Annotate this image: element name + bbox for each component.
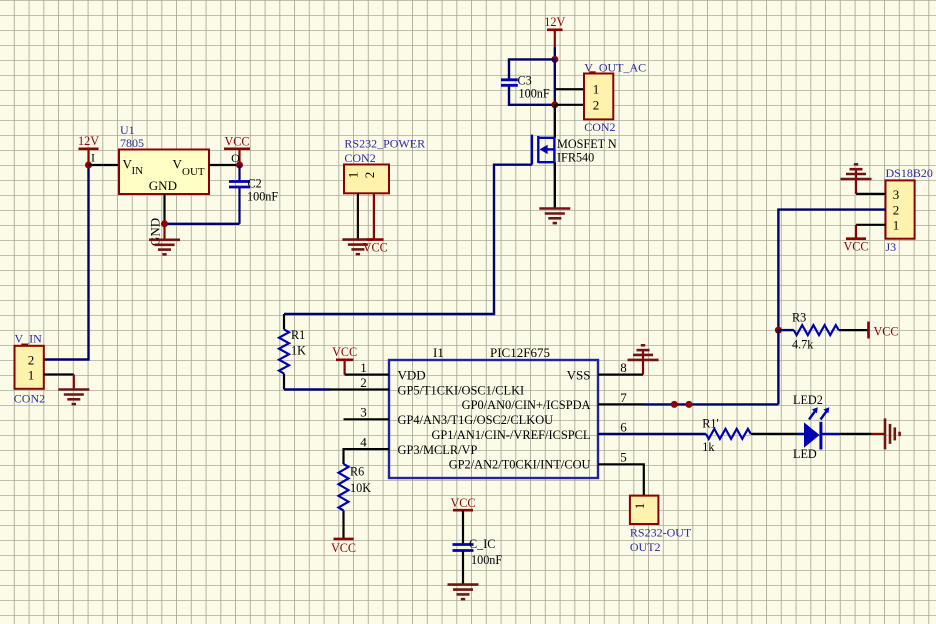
svg-text:CON2: CON2	[584, 120, 615, 134]
ground below MOSFET	[539, 209, 570, 224]
ground below RS232_POWER	[342, 240, 373, 255]
wire pin5	[598, 464, 644, 495]
wire U1 pin3 out	[209, 164, 240, 166]
svg-text:1k: 1k	[702, 440, 715, 454]
wire pin8	[598, 374, 643, 376]
svg-text:12V: 12V	[544, 15, 565, 29]
power port VCC right (rotated)	[869, 322, 899, 339]
svg-text:LED2: LED2	[793, 393, 823, 407]
svg-text:OUT2: OUT2	[630, 540, 661, 554]
svg-text:CON2: CON2	[344, 151, 375, 165]
svg-text:C_IC: C_IC	[469, 537, 495, 551]
svg-text:R6: R6	[350, 465, 364, 479]
svg-text:2: 2	[28, 353, 35, 368]
svg-text:5: 5	[620, 450, 627, 465]
svg-text:3: 3	[893, 187, 900, 202]
svg-text:4: 4	[360, 435, 367, 450]
svg-text:1: 1	[346, 172, 361, 179]
svg-text:1: 1	[893, 218, 900, 233]
svg-text:V_IN: V_IN	[15, 332, 43, 346]
wire U1 pin1	[89, 164, 120, 166]
svg-text:MOSFET N: MOSFET N	[557, 137, 617, 151]
svg-text:GP2/AN2/T0CKI/INT/COU: GP2/AN2/T0CKI/INT/COU	[449, 458, 591, 472]
svg-text:GP5/T1CKI/OSC1/CLKI: GP5/T1CKI/OSC1/CLKI	[398, 383, 525, 397]
svg-text:7: 7	[620, 390, 627, 405]
svg-text:2: 2	[593, 97, 600, 112]
wire pin3 stub	[344, 418, 390, 420]
transistor MOSFET N IFR540	[532, 135, 555, 165]
svg-text:J3: J3	[886, 240, 897, 254]
svg-text:VCC: VCC	[331, 541, 356, 555]
svg-text:2: 2	[893, 203, 900, 218]
ground right of LED (rotated)	[885, 418, 900, 449]
wire RS232_POWER pin1 down	[357, 193, 359, 239]
connector RS232-OUT	[630, 496, 659, 524]
svg-text:C2: C2	[248, 177, 262, 191]
connector V_IN CON2	[15, 345, 44, 389]
power port VCC below R6	[331, 539, 356, 555]
connector V_OUT_AC CON2	[584, 72, 613, 119]
svg-text:1K: 1K	[291, 344, 306, 358]
wire R3 to VCC	[839, 329, 869, 331]
wire V_IN pin1 to ground	[44, 373, 74, 375]
svg-text:VCC: VCC	[843, 240, 868, 254]
wire gate	[284, 165, 532, 314]
svg-text:100nF: 100nF	[519, 87, 550, 101]
svg-text:OUT: OUT	[182, 166, 205, 178]
wire 12V node vertical to V_IN pin2	[44, 165, 89, 360]
wire RS232_POWER pin2 down	[373, 193, 375, 239]
svg-text:2: 2	[362, 172, 377, 179]
svg-text:100nF: 100nF	[247, 190, 278, 204]
svg-text:1: 1	[28, 368, 35, 383]
svg-text:1: 1	[360, 360, 367, 375]
node junction R3	[775, 327, 782, 334]
svg-text:VCC: VCC	[332, 345, 357, 359]
node dot A on pin7 wire	[671, 401, 678, 408]
power port VCC at pin1	[332, 345, 357, 375]
ground GND below U1	[149, 224, 180, 255]
wire source down	[554, 162, 556, 208]
wire junction to R3	[778, 329, 793, 331]
svg-text:CON2: CON2	[14, 392, 45, 406]
svg-text:GP1/AN1/CIN-/VREF/ICSPCL: GP1/AN1/CIN-/VREF/ICSPCL	[431, 428, 590, 442]
svg-text:2: 2	[360, 375, 367, 390]
power port VCC bar at RS232_POWER	[367, 238, 384, 241]
svg-text:RS232_POWER: RS232_POWER	[344, 137, 425, 151]
wire J3 pin1 to VCC	[856, 224, 886, 226]
power port 12V (left)	[78, 134, 99, 165]
node junction at pin2	[551, 101, 558, 108]
node 12V junction	[85, 162, 92, 169]
svg-text:VDD: VDD	[398, 368, 426, 383]
capacitor C3 branch	[501, 59, 555, 104]
node VCC junction	[236, 162, 243, 169]
svg-text:U1: U1	[120, 123, 135, 137]
svg-text:GND: GND	[149, 178, 177, 193]
wire main vertical 12V net	[554, 59, 556, 104]
connector J3	[886, 180, 915, 238]
svg-text:V: V	[173, 157, 183, 172]
wire R1' to LED	[751, 433, 797, 435]
connector RS232_POWER CON2	[344, 165, 389, 194]
svg-text:1: 1	[593, 82, 600, 97]
wire C2 bottom to GND node	[165, 223, 240, 225]
resistor R6	[339, 464, 349, 538]
wire LED to ground	[840, 433, 871, 435]
wire pin4	[344, 449, 390, 464]
svg-text:GP0/AN0/CIN+/ICSPDA: GP0/AN0/CIN+/ICSPDA	[462, 398, 591, 412]
svg-text:LED: LED	[793, 447, 817, 461]
op-amp I1 box PIC12F675	[389, 360, 598, 478]
node dot B on pin7 wire	[686, 401, 693, 408]
wire pin2	[284, 388, 330, 390]
svg-text:R1: R1	[291, 328, 305, 342]
svg-text:I: I	[91, 151, 95, 165]
power port 12V (top)	[544, 15, 565, 47]
svg-text:C3: C3	[518, 74, 532, 88]
wire pin1	[345, 374, 389, 376]
wire V_OUT_AC pin2	[555, 104, 584, 106]
svg-text:VCC: VCC	[224, 135, 249, 149]
svg-text:VSS: VSS	[567, 368, 591, 383]
power port VCC below J3	[843, 239, 868, 254]
ground above pin8 (inverted)	[628, 345, 659, 360]
svg-text:GND: GND	[148, 218, 163, 246]
ground below C_IC	[448, 585, 479, 600]
resistor R3	[794, 325, 839, 335]
wire V_OUT_AC pin1	[555, 88, 584, 90]
capacitor C2	[229, 165, 250, 224]
svg-text:12V: 12V	[78, 134, 99, 148]
svg-text:7805: 7805	[120, 136, 144, 150]
svg-text:IN: IN	[132, 165, 144, 177]
svg-text:10K: 10K	[350, 481, 371, 495]
svg-text:1: 1	[632, 503, 647, 510]
svg-text:100nF: 100nF	[471, 553, 502, 567]
svg-text:VCC: VCC	[874, 325, 899, 339]
ground below V_IN	[58, 390, 89, 405]
wire pin6	[598, 433, 706, 435]
power port VCC (right of U1)	[224, 135, 250, 166]
svg-text:4.7k: 4.7k	[792, 338, 814, 352]
svg-text:DS18B20: DS18B20	[886, 166, 933, 180]
wire pin8 up to ground	[642, 350, 644, 375]
wire vertical down to pin7 line	[777, 330, 779, 404]
svg-text:GP3/MCLR/VP: GP3/MCLR/VP	[398, 443, 478, 457]
resistor R1	[279, 314, 289, 390]
op-amp U1 box	[119, 150, 209, 195]
svg-text:R1': R1'	[702, 417, 718, 431]
svg-text:VCC: VCC	[450, 496, 475, 510]
svg-text:6: 6	[620, 420, 627, 435]
svg-text:PIC12F675: PIC12F675	[490, 345, 550, 360]
wire drain from junction down	[554, 105, 556, 138]
wire J3 pin3 to ground	[856, 193, 886, 195]
capacitor C_IC	[453, 510, 474, 584]
resistor R1'	[706, 429, 751, 439]
ground above J3 (inverted)	[841, 164, 872, 179]
wire U1 GND pin	[163, 194, 165, 224]
svg-text:R3: R3	[792, 311, 806, 325]
node junction top	[551, 56, 558, 63]
power port VCC above C_IC	[450, 496, 475, 510]
node GND junction	[161, 220, 168, 227]
wire pin7	[598, 403, 644, 405]
svg-text:I1: I1	[433, 345, 444, 360]
wire J3 pin2 long	[778, 210, 885, 331]
svg-text:IFR540: IFR540	[557, 151, 594, 165]
svg-text:VCC: VCC	[363, 240, 388, 254]
wire 12V to junction	[554, 47, 556, 59]
svg-text:3: 3	[360, 405, 367, 420]
svg-text:RS232-OUT: RS232-OUT	[630, 525, 692, 539]
svg-text:8: 8	[620, 360, 627, 375]
svg-text:GP4/AN3/T1G/OSC2/CLKOU: GP4/AN3/T1G/OSC2/CLKOU	[398, 413, 554, 427]
diode LED2	[797, 407, 840, 449]
